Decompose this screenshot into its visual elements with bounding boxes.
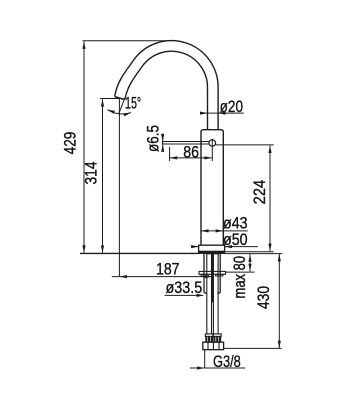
threaded shank [204,253,207,293]
extension line 224 top [216,144,274,146]
svg-text:max 80: max 80 [230,256,249,299]
spout inner curve [125,51,208,130]
angle reference slant line [119,97,126,114]
extension line top 429 [83,40,168,42]
mounting flange [199,271,226,274]
dimension 314 [102,99,104,253]
dimension 224 [269,146,271,251]
extension line outlet vertical [118,99,120,277]
hose fitting threads [205,336,213,341]
label G3/8 [190,367,205,369]
svg-text:187: 187 [156,259,180,278]
faucet body [201,130,223,246]
svg-text:G3/8: G3/8 [213,352,241,371]
counter reference line right [225,251,274,253]
svg-text:ø20: ø20 [220,97,243,116]
pivot axis line [211,139,213,161]
svg-text:224: 224 [250,180,269,205]
svg-text:86: 86 [183,142,199,161]
dimension 429 [83,42,85,253]
center stud [211,253,213,302]
svg-text:15°: 15° [125,94,141,113]
svg-text:ø50: ø50 [223,230,248,249]
extension line 86 left [169,147,171,161]
svg-text:429: 429 [61,132,80,155]
counter reference line [80,252,199,254]
hose fitting collars [205,334,213,337]
spout outer curve [115,41,218,131]
handle pivot circle [209,140,216,147]
dimension o6.5 [162,134,164,151]
right supply hose [213,254,218,334]
dimension max 80 [249,254,251,272]
svg-text:430: 430 [254,286,273,309]
base plate [199,245,225,253]
extension line G3/8 [204,350,206,368]
dimension o43 [200,230,247,232]
dimension 430 [278,254,280,348]
left supply hose [207,254,212,334]
dimension o20 [201,112,244,114]
extension line hose bottom [224,347,282,349]
svg-text:ø6.5: ø6.5 [143,125,162,152]
dimension 187 [112,276,213,278]
connector nut G3/8 [203,342,224,350]
angle arc 15deg [107,110,131,114]
dimension o50 [191,246,198,248]
spout outlet face [115,97,125,100]
extension line flange top [226,271,255,273]
dimension 86 [170,157,212,159]
handle bar [162,141,209,143]
extension line outlet 314 [100,98,120,100]
svg-text:314: 314 [81,162,100,185]
